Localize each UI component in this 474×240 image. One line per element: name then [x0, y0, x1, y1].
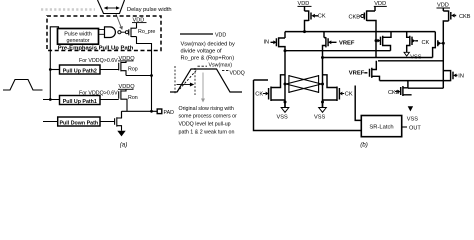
svg-text:Vsw(max): Vsw(max) [209, 63, 233, 69]
wire VDD to PMOS [136, 23, 138, 29]
input bus wire [50, 27, 58, 100]
svg-text:(b): (b) [360, 141, 368, 148]
nmos Tvref2 [364, 61, 379, 81]
input waveform trapezoid [3, 80, 43, 91]
svg-text:some process corners or: some process corners or [179, 114, 238, 120]
gray dashed remnant line top-left [41, 8, 95, 10]
vss out arrow [408, 106, 413, 111]
node dot path2 branch [49, 68, 52, 71]
svg-text:VSS: VSS [410, 55, 421, 61]
svg-text:CK: CK [422, 40, 430, 46]
left loop wire to SR latch [254, 80, 362, 131]
vss stage2 drop [404, 52, 409, 56]
svg-text:VDDQ: VDDQ [230, 70, 245, 76]
pad square [157, 109, 162, 114]
pmos P2 tail ckb [364, 10, 376, 57]
wire path2 to Rop gate [100, 69, 119, 71]
svg-text:VSS: VSS [314, 115, 325, 121]
svg-text:generator: generator [66, 38, 89, 44]
svg-text:For VDDQ>0.6V: For VDDQ>0.6V [79, 58, 118, 64]
nmos IN2 [443, 70, 457, 81]
dashed slow rising edge [177, 69, 198, 92]
wire Ro_pre drain to output rail [137, 37, 152, 78]
svg-text:OUT: OUT [409, 125, 421, 131]
dashed box pre-emphasis path [47, 16, 161, 51]
drain rail right (Dright) [323, 57, 433, 59]
pmos Tc gate [438, 40, 444, 46]
svg-text:VSS: VSS [407, 117, 418, 123]
SR latch box [361, 116, 401, 137]
drain rail left (Dleft) [285, 50, 391, 52]
svg-text:CKB: CKB [388, 90, 400, 96]
VDD level annotation line [180, 33, 213, 35]
svg-text:Pre-Emphasis Pull Up Path: Pre-Emphasis Pull Up Path [58, 46, 134, 52]
wire to pull up path2 [50, 69, 59, 71]
nmos Tckb3 [401, 81, 412, 96]
wire Rop drain to rail [126, 75, 152, 77]
ground [117, 131, 125, 137]
dashed vertical mid [194, 68, 196, 95]
nmos pull down [115, 111, 122, 131]
nmos Tb [407, 32, 418, 53]
pmos M1 input [271, 37, 286, 51]
svg-text:PAD: PAD [164, 110, 175, 116]
svg-text:Ro_pre & (Rop+Ron): Ro_pre & (Rop+Ron) [181, 56, 235, 62]
svg-text:Vsw(max) decided by: Vsw(max) decided by [181, 42, 236, 48]
svg-text:VSS: VSS [277, 115, 288, 121]
pmos M2 vref [323, 37, 337, 57]
svg-text:SR-Latch: SR-Latch [369, 124, 393, 130]
wire rail to pad node [151, 76, 153, 112]
svg-text:Original slow rising with: Original slow rising with [179, 106, 234, 112]
pull up path2 box [60, 65, 101, 74]
dashed level Vsw(max) [198, 65, 208, 67]
svg-text:Pull Up Path2: Pull Up Path2 [63, 68, 97, 74]
wire to nmos gate [43, 121, 115, 123]
ck switch left arrow [266, 92, 269, 96]
vss right latch [322, 102, 324, 108]
svg-text:path 1 & 2 weak turn on: path 1 & 2 weak turn on [179, 130, 235, 136]
pmos Ro_pre [129, 28, 137, 37]
latch left source step [269, 75, 285, 101]
delay arrow on waveform [177, 84, 192, 86]
svg-text:Delay pulse width: Delay pulse width [127, 7, 172, 13]
stage2b wire rectangle [378, 61, 443, 81]
vss left latch [284, 102, 286, 108]
svg-text:Pull Down Path: Pull Down Path [60, 120, 99, 126]
gray arrow to note [202, 73, 204, 100]
wire path1 to Ron gate [100, 99, 119, 101]
wire pull down to pad [121, 111, 123, 118]
pmos Ron [119, 89, 127, 111]
svg-text:(a): (a) [120, 142, 128, 149]
delay pulse width arrow [105, 7, 120, 9]
arrow annotation to NAND output [116, 14, 121, 27]
pmos P3 ckb right [443, 10, 456, 88]
svg-text:VREF: VREF [339, 41, 355, 47]
cross coupled diagonals [286, 76, 322, 93]
latch gate bars [289, 75, 319, 93]
delay pulse waveform [98, 0, 125, 14]
pulse width generator box [58, 29, 99, 45]
svg-text:VREF: VREF [349, 71, 365, 77]
dashed level VDDQ [222, 69, 229, 71]
pull up path1 box [60, 96, 101, 105]
latch left drain line [284, 51, 286, 108]
svg-text:Pulse width: Pulse width [64, 32, 92, 38]
latch right drain line [322, 58, 324, 108]
svg-text:IN: IN [458, 74, 464, 80]
pull down path box [58, 117, 100, 126]
svg-text:Ro_pre: Ro_pre [138, 29, 155, 35]
svg-text:divide voltage of: divide voltage of [181, 49, 223, 55]
right loop wire to SR latch [355, 86, 361, 121]
svg-text:IN: IN [264, 40, 270, 46]
middle annotations [170, 32, 245, 135]
latch right source step [323, 75, 340, 101]
pmos P1 tail ck [305, 10, 319, 31]
stage2 gate tap node [375, 39, 378, 42]
pmos Rop [119, 61, 126, 76]
dashed vertical left [174, 66, 176, 94]
svg-text:CKB: CKB [459, 14, 471, 20]
svg-text:Rop: Rop [128, 67, 138, 73]
figure (b) comparator schematic [254, 1, 471, 148]
svg-text:CKB: CKB [349, 14, 361, 20]
wire IN2 bottom to latch input [408, 87, 443, 89]
nand U1 [99, 29, 105, 34]
common source rail (long) [285, 31, 435, 33]
wire to pull up path1 [43, 99, 60, 101]
out lead [402, 126, 407, 128]
figure (a) left driver schematic [3, 0, 174, 149]
pad waveform [170, 69, 242, 92]
rail1 to rail3 connector / Tc channel [433, 32, 436, 58]
svg-text:CK: CK [318, 14, 326, 20]
pad net wire [122, 110, 158, 112]
svg-text:VDDQ level let pull-up: VDDQ level let pull-up [179, 122, 231, 128]
ck switch right arrow [339, 92, 342, 96]
nmos Ta [376, 32, 391, 51]
svg-text:CK: CK [345, 91, 353, 97]
svg-text:Ron: Ron [128, 95, 138, 101]
gray note text [179, 106, 238, 136]
svg-text:VDD: VDD [215, 32, 226, 38]
node dot path1 branch [49, 98, 52, 101]
svg-text:CK: CK [255, 92, 263, 98]
svg-text:Pull Up Path1: Pull Up Path1 [63, 99, 97, 105]
